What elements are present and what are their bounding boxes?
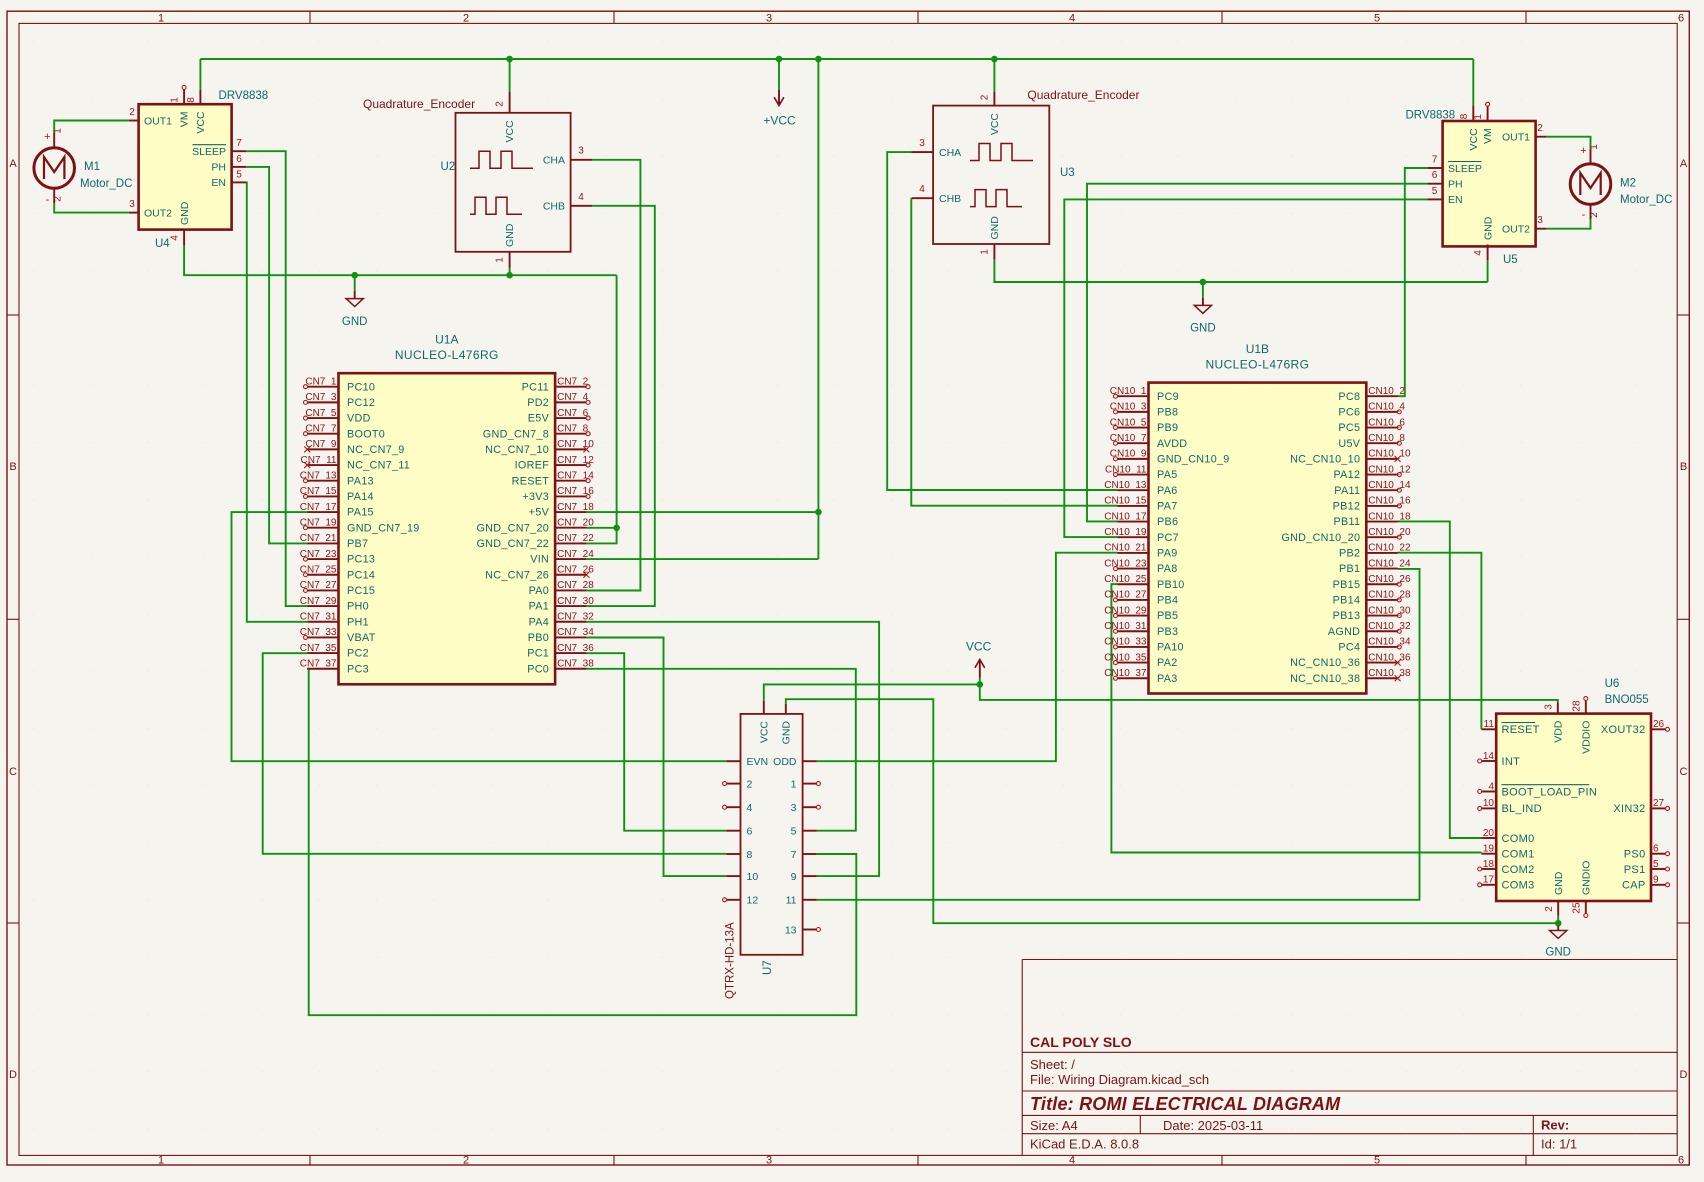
svg-text:CN7_9: CN7_9 <box>305 439 337 450</box>
svg-text:3: 3 <box>129 199 135 210</box>
svg-text:5: 5 <box>791 826 797 838</box>
U1B pin CN10_14 (PA11) <box>1366 489 1397 491</box>
svg-text:Sheet: /: Sheet: / <box>1030 1057 1075 1072</box>
U1B pin CN10_19 (PC7) <box>1117 536 1148 538</box>
svg-text:2: 2 <box>1544 906 1555 912</box>
svg-text:2: 2 <box>980 94 991 100</box>
U1A pin CN7_30 (PA1) <box>555 605 586 607</box>
svg-text:Quadrature_Encoder: Quadrature_Encoder <box>1027 88 1139 102</box>
svg-text:CN10_18: CN10_18 <box>1368 511 1411 522</box>
U1A pin CN7_25 (PC14) <box>307 574 338 576</box>
svg-text:1: 1 <box>158 13 164 25</box>
svg-text:U1A: U1A <box>435 333 458 347</box>
svg-text:CN10_24: CN10_24 <box>1368 558 1411 569</box>
svg-text:19: 19 <box>1483 844 1495 855</box>
U1B pin CN10_12 (PA12) <box>1366 474 1397 476</box>
U1A pin CN7_28 (PA0) <box>555 589 586 591</box>
svg-text:4: 4 <box>1488 781 1494 792</box>
svg-text:PA2: PA2 <box>1157 657 1178 669</box>
svg-text:CN7_6: CN7_6 <box>557 408 589 419</box>
svg-text:OUT2: OUT2 <box>1502 224 1530 236</box>
svg-text:PA0: PA0 <box>529 585 550 597</box>
U1B pin CN10_23 (PA8) <box>1117 568 1148 570</box>
svg-text:CN10_10: CN10_10 <box>1368 449 1411 460</box>
svg-text:CN10_26: CN10_26 <box>1368 574 1411 585</box>
wire: PC3 to QTRX pin7 <box>307 669 856 1015</box>
svg-text:PH1: PH1 <box>347 616 369 628</box>
U1A pin CN7_20 (GND_CN7_20) <box>555 527 586 529</box>
svg-text:Size: A4: Size: A4 <box>1030 1118 1078 1133</box>
svg-text:CN7_19: CN7_19 <box>300 518 337 529</box>
U1B pin CN10_31 (PB3) <box>1117 630 1148 632</box>
U1B pin CN10_33 (PA10) <box>1117 646 1148 648</box>
junction: +5V branch <box>815 509 822 516</box>
U1A pin CN7_23 (PC13) <box>307 558 338 560</box>
svg-text:8: 8 <box>186 97 197 103</box>
svg-text:Title: ROMI ELECTRICAL DIAGRAM: Title: ROMI ELECTRICAL DIAGRAM <box>1030 1094 1341 1114</box>
svg-text:VDD: VDD <box>347 413 371 425</box>
U1A pin CN7_15 (PA14) <box>307 495 338 497</box>
U4 pin 2 OUT1 <box>129 120 139 122</box>
U5 pin 5 EN <box>1427 198 1442 200</box>
svg-text:VM: VM <box>1482 128 1494 144</box>
wire: QTRX pin11 to PB1 <box>817 569 1420 900</box>
U5 pin 8 VCC <box>1472 106 1474 121</box>
svg-text:CN7_35: CN7_35 <box>300 643 337 654</box>
svg-text:PB9: PB9 <box>1157 422 1178 434</box>
U1A pin CN7_10 (NC_CN7_10) <box>555 448 586 450</box>
svg-text:11: 11 <box>786 895 797 907</box>
svg-text:2: 2 <box>129 107 135 118</box>
svg-text:PC2: PC2 <box>347 648 369 660</box>
junction: +VCC tap <box>776 56 783 63</box>
svg-text:CN10_6: CN10_6 <box>1368 417 1405 428</box>
svg-text:PB1: PB1 <box>1339 563 1360 575</box>
U2 pin 1 GND <box>509 252 511 268</box>
U7 pin VCC <box>763 701 765 714</box>
svg-text:CN7_24: CN7_24 <box>557 549 594 560</box>
power symbol GND (left rail) <box>354 275 356 291</box>
wire: +5V branch <box>586 511 818 513</box>
U1A pin CN7_5 (VDD) <box>307 417 338 419</box>
svg-text:6: 6 <box>1678 13 1684 25</box>
U1A pin CN7_3 (PC12) <box>307 401 338 403</box>
svg-text:5: 5 <box>236 170 242 181</box>
U7 pin 4 <box>726 806 740 808</box>
svg-text:PB7: PB7 <box>347 538 368 550</box>
svg-text:CN10_21: CN10_21 <box>1104 543 1147 554</box>
svg-text:U5: U5 <box>1503 254 1518 266</box>
svg-text:GND: GND <box>342 316 368 328</box>
U1A pin CN7_12 (IOREF) <box>555 464 586 466</box>
title block <box>1022 959 1677 961</box>
svg-text:COM1: COM1 <box>1502 849 1535 861</box>
junction: CN7_20 GND <box>613 525 620 532</box>
power symbol GND (right rail) <box>1202 282 1204 298</box>
svg-text:25: 25 <box>1571 902 1582 914</box>
svg-text:PA12: PA12 <box>1333 469 1360 481</box>
wire: U2 VCC riser <box>509 59 511 92</box>
svg-text:CN10_28: CN10_28 <box>1368 590 1411 601</box>
svg-text:GND: GND <box>1190 323 1216 335</box>
U1A pin CN7_32 (PA4) <box>555 621 586 623</box>
svg-text:1: 1 <box>791 778 797 790</box>
svg-text:4: 4 <box>578 192 584 203</box>
U4 pin 3 OUT2 <box>129 212 139 214</box>
wire: U2 CHA to PA0 <box>586 160 640 591</box>
svg-text:PC9: PC9 <box>1157 391 1179 403</box>
U1A pin CN7_18 (+5V) <box>555 511 586 513</box>
svg-text:CN10_37: CN10_37 <box>1104 668 1147 679</box>
svg-text:+5V: +5V <box>529 507 550 519</box>
U1B pin CN10_35 (PA2) <box>1117 662 1148 664</box>
svg-text:CN10_14: CN10_14 <box>1368 480 1411 491</box>
U1A pin CN7_24 (VIN) <box>555 558 586 560</box>
svg-text:GND_CN10_9: GND_CN10_9 <box>1157 453 1230 465</box>
U3 pin 4 CHB <box>912 197 934 199</box>
svg-text:OUT1: OUT1 <box>144 115 172 127</box>
junction: VCC arrow <box>977 681 984 688</box>
svg-text:PA7: PA7 <box>1157 500 1178 512</box>
svg-text:PC10: PC10 <box>347 381 375 393</box>
U6 pin 5 PS1 <box>1651 868 1666 870</box>
wire: U6 GND drop <box>1557 916 1559 924</box>
svg-text:NUCLEO-L476RG: NUCLEO-L476RG <box>1205 358 1309 372</box>
encoder U3 (Quadrature_Encoder) <box>933 106 1049 244</box>
U1A pin CN7_31 (PH1) <box>307 621 338 623</box>
svg-text:NC_CN7_11: NC_CN7_11 <box>347 460 410 472</box>
svg-text:3: 3 <box>766 1155 772 1167</box>
U7 pin 3 <box>803 806 817 808</box>
svg-text:PB2: PB2 <box>1339 548 1360 560</box>
wire: QTRX GND to U6 GND <box>786 699 1558 923</box>
U4 pin 7 SLEEP <box>232 150 247 152</box>
U1B pin CN10_6 (PC5) <box>1366 427 1397 429</box>
svg-text:M1: M1 <box>84 161 100 173</box>
svg-text:CHA: CHA <box>543 155 565 167</box>
svg-text:CN7_11: CN7_11 <box>301 455 337 466</box>
svg-text:INT: INT <box>1502 756 1521 768</box>
U1B pin CN10_22 (PB2) <box>1366 552 1397 554</box>
wire: U4 PH to PB7 <box>246 167 307 544</box>
svg-text:PB15: PB15 <box>1333 579 1361 591</box>
svg-text:1: 1 <box>495 257 506 263</box>
svg-text:CN10_19: CN10_19 <box>1104 527 1147 538</box>
svg-text:CAP: CAP <box>1622 880 1646 892</box>
svg-text:CN7_27: CN7_27 <box>300 580 337 591</box>
U7 pin 6 <box>726 830 740 832</box>
svg-text:2: 2 <box>1589 212 1600 218</box>
svg-text:CN7_20: CN7_20 <box>557 518 594 529</box>
U1A pin CN7_21 (PB7) <box>307 542 338 544</box>
svg-text:PA9: PA9 <box>1157 548 1178 560</box>
svg-text:U1B: U1B <box>1246 342 1269 356</box>
U6 pin 25 GNDIO (unconnected) <box>1585 901 1587 914</box>
svg-text:CN10_13: CN10_13 <box>1104 480 1147 491</box>
U1A pin CN7_22 (GND_CN7_22) <box>555 542 586 544</box>
svg-text:C: C <box>9 766 17 778</box>
svg-text:PC12: PC12 <box>347 397 375 409</box>
svg-text:7: 7 <box>1432 155 1438 166</box>
svg-text:VIN: VIN <box>530 554 549 566</box>
svg-text:PH: PH <box>211 162 226 174</box>
wire: U4 VCC riser <box>199 59 201 90</box>
wire: PC1 to QTRX pin6 <box>586 653 726 831</box>
svg-text:CN7_21: CN7_21 <box>300 533 337 544</box>
svg-text:GND_CN7_22: GND_CN7_22 <box>476 538 549 550</box>
svg-text:CN10_22: CN10_22 <box>1368 543 1411 554</box>
svg-text:PA8: PA8 <box>1157 563 1178 575</box>
MCU board U1B (NUCLEO-L476RG) <box>1149 383 1367 694</box>
svg-text:GND: GND <box>989 216 1001 240</box>
svg-text:CN10_15: CN10_15 <box>1104 496 1147 507</box>
svg-text:GND: GND <box>1545 946 1571 958</box>
svg-text:Quadrature_Encoder: Quadrature_Encoder <box>363 97 475 111</box>
wire: PB10 to U6 COM1 <box>1111 584 1481 852</box>
wire: PA4 to QTRX pin9 <box>586 622 879 876</box>
U1B pin CN10_34 (PC4) <box>1366 646 1397 648</box>
U6 pin 20 COM0 <box>1482 837 1497 839</box>
U6 pin 26 XOUT32 <box>1651 728 1666 730</box>
U1B pin CN10_7 (AVDD) <box>1117 442 1148 444</box>
U1B pin CN10_32 (AGND) <box>1366 630 1397 632</box>
svg-text:4: 4 <box>1069 13 1075 25</box>
svg-text:C: C <box>1680 766 1688 778</box>
U1A pin CN7_14 (RESET) <box>555 480 586 482</box>
svg-text:XOUT32: XOUT32 <box>1601 724 1646 736</box>
junction: U2 VCC tap <box>506 56 513 63</box>
svg-text:CN7_26: CN7_26 <box>557 565 594 576</box>
svg-text:EVN: EVN <box>747 756 769 768</box>
motor driver U4 (DRV8838) <box>139 104 232 229</box>
junction: left GND rail <box>351 272 358 279</box>
wire: PC0 to QTRX pin5 <box>586 669 855 831</box>
svg-text:QTRX-HD-13A: QTRX-HD-13A <box>725 922 737 999</box>
svg-text:4: 4 <box>170 235 181 241</box>
svg-text:CN10_9: CN10_9 <box>1110 449 1147 460</box>
MCU board U1A (NUCLEO-L476RG) <box>339 373 556 684</box>
svg-text:CN10_23: CN10_23 <box>1104 558 1147 569</box>
U7 pin EVN <box>726 760 740 762</box>
svg-text:CN7_36: CN7_36 <box>557 643 594 654</box>
U1A pin CN7_26 (NC_CN7_26) <box>555 574 586 576</box>
svg-text:+: + <box>1580 145 1586 157</box>
svg-text:BNO055: BNO055 <box>1605 694 1649 706</box>
svg-text:U7: U7 <box>762 960 774 975</box>
svg-text:DRV8838: DRV8838 <box>219 90 269 102</box>
svg-text:18: 18 <box>1483 859 1495 870</box>
U1B pin CN10_5 (PB9) <box>1117 427 1148 429</box>
U6 pin 14 INT <box>1482 760 1497 762</box>
svg-text:1: 1 <box>1473 114 1484 120</box>
svg-text:PA5: PA5 <box>1157 469 1178 481</box>
svg-text:IOREF: IOREF <box>515 460 550 472</box>
svg-text:PA4: PA4 <box>529 616 550 628</box>
U6 pin 11 RESET <box>1482 728 1497 730</box>
svg-text:D: D <box>1680 1069 1688 1081</box>
U1B pin CN10_8 (U5V) <box>1366 442 1397 444</box>
svg-text:CN10_1: CN10_1 <box>1110 386 1147 397</box>
junction: right GND rail <box>1200 279 1207 286</box>
svg-text:PA10: PA10 <box>1157 642 1184 654</box>
motor M2 <box>1590 149 1592 164</box>
U3 pin 1 GND <box>993 244 995 260</box>
U6 pin 18 COM2 <box>1482 868 1497 870</box>
U7 pin ODD <box>803 760 817 762</box>
U1A pin CN7_27 (PC15) <box>307 589 338 591</box>
U1A pin CN7_2 (PC11) <box>555 386 586 388</box>
U1B pin CN10_1 (PC9) <box>1117 395 1148 397</box>
svg-text:AVDD: AVDD <box>1157 438 1187 450</box>
svg-text:CHB: CHB <box>939 193 961 205</box>
svg-text:GND: GND <box>179 201 191 225</box>
svg-text:10: 10 <box>747 871 759 883</box>
power symbol +VCC <box>778 59 780 90</box>
U5 pin 3 OUT2 <box>1536 228 1547 230</box>
svg-text:U4: U4 <box>155 238 170 250</box>
svg-text:5: 5 <box>1432 186 1438 197</box>
svg-text:1: 1 <box>1589 144 1600 150</box>
svg-text:GND: GND <box>504 223 516 247</box>
svg-text:Rev:: Rev: <box>1541 1118 1569 1133</box>
svg-text:2: 2 <box>1537 123 1543 134</box>
svg-text:PB14: PB14 <box>1333 595 1361 607</box>
svg-text:PB3: PB3 <box>1157 626 1178 638</box>
U1B pin CN10_28 (PB14) <box>1366 599 1397 601</box>
svg-text:EN: EN <box>1448 194 1463 206</box>
U1B pin CN10_26 (PB15) <box>1366 583 1397 585</box>
wire: U3 GND drop <box>994 260 1487 282</box>
svg-text:CN10_7: CN10_7 <box>1110 433 1147 444</box>
U1A pin CN7_11 (NC_CN7_11) <box>307 464 338 466</box>
svg-text:CN7_34: CN7_34 <box>557 627 594 638</box>
svg-text:2: 2 <box>53 196 64 202</box>
svg-text:1: 1 <box>980 249 991 255</box>
U6 pin 4 BOOT_LOAD_PIN <box>1482 791 1497 793</box>
U1A pin CN7_37 (PC3) <box>307 668 338 670</box>
svg-text:PC8: PC8 <box>1338 391 1360 403</box>
U1B pin CN10_16 (PB12) <box>1366 505 1397 507</box>
svg-text:NC_CN10_38: NC_CN10_38 <box>1290 673 1360 685</box>
power symbol VCC (sensor) <box>979 678 981 685</box>
svg-text:PA11: PA11 <box>1334 485 1360 497</box>
svg-text:CN7_31: CN7_31 <box>300 612 337 623</box>
U4 pin 6 PH <box>232 166 247 168</box>
wire: M2 to OUT1 <box>1546 137 1590 149</box>
U6 pin 10 BL_IND <box>1482 807 1497 809</box>
wire: U5 GND drop <box>1487 260 1489 282</box>
U2 waveform CHA <box>470 151 533 168</box>
svg-text:CN10_31: CN10_31 <box>1104 621 1147 632</box>
U1A pin CN7_34 (PB0) <box>555 636 586 638</box>
svg-text:NC_CN7_9: NC_CN7_9 <box>347 444 405 456</box>
svg-text:CN7_4: CN7_4 <box>557 392 589 403</box>
wire: U3 VCC riser <box>993 59 995 92</box>
svg-text:PA3: PA3 <box>1157 673 1178 685</box>
svg-text:NC_CN7_10: NC_CN7_10 <box>485 444 549 456</box>
svg-text:+3V3: +3V3 <box>522 491 549 503</box>
svg-text:VCC: VCC <box>758 721 770 744</box>
svg-text:VDDIO: VDDIO <box>1580 721 1592 754</box>
svg-text:5: 5 <box>1374 13 1380 25</box>
wire: PA9 to QTRX ODD <box>817 553 1118 762</box>
U1B pin CN10_2 (PC8) <box>1366 395 1397 397</box>
svg-text:GND_CN7_20: GND_CN7_20 <box>476 522 549 534</box>
wire: U4 EN to PH1 <box>246 182 307 621</box>
U7 pin 13 <box>803 929 817 931</box>
svg-text:17: 17 <box>1483 875 1495 886</box>
U5 pin 6 PH <box>1427 183 1442 185</box>
svg-text:CHB: CHB <box>543 201 565 213</box>
U5 pin 2 OUT1 <box>1536 136 1547 138</box>
svg-text:CN7_28: CN7_28 <box>557 580 594 591</box>
svg-text:4: 4 <box>919 184 925 195</box>
svg-text:4: 4 <box>1069 1155 1075 1167</box>
junction: +5V tap <box>815 56 822 63</box>
U7 pin 1 <box>803 783 817 785</box>
svg-text:-: - <box>1582 209 1586 221</box>
U1A pin CN7_35 (PC2) <box>307 652 338 654</box>
svg-text:PC3: PC3 <box>347 663 369 675</box>
U3 waveform CHB <box>970 190 1022 207</box>
svg-text:6: 6 <box>1678 1155 1684 1167</box>
svg-text:PC15: PC15 <box>347 585 375 597</box>
svg-text:CN7_1: CN7_1 <box>305 377 337 388</box>
U1B pin CN10_9 (GND_CN10_9) <box>1117 458 1148 460</box>
svg-text:6: 6 <box>1432 170 1438 181</box>
U6 pin 17 COM3 <box>1482 884 1497 886</box>
svg-text:CN10_29: CN10_29 <box>1104 605 1147 616</box>
svg-text:PC0: PC0 <box>527 663 549 675</box>
U1B pin CN10_29 (PB5) <box>1117 615 1148 617</box>
svg-text:OUT1: OUT1 <box>1502 132 1530 144</box>
svg-text:PC14: PC14 <box>347 569 375 581</box>
svg-text:PA6: PA6 <box>1157 485 1178 497</box>
junction: U6 GND <box>1555 920 1562 927</box>
U1B pin CN10_10 (NC_CN10_10) <box>1366 458 1397 460</box>
svg-text:CN10_25: CN10_25 <box>1104 574 1147 585</box>
U1A pin CN7_1 (PC10) <box>307 386 338 388</box>
svg-text:PB8: PB8 <box>1157 406 1178 418</box>
svg-text:CN10_3: CN10_3 <box>1110 402 1147 413</box>
U5 pin 1 VM (unconnected) <box>1487 106 1489 121</box>
svg-text:EN: EN <box>211 177 226 189</box>
U1B pin CN10_18 (PB11) <box>1366 521 1397 523</box>
U7 pin 2 <box>726 783 740 785</box>
svg-text:PC11: PC11 <box>522 381 549 393</box>
svg-text:GND_CN7_19: GND_CN7_19 <box>347 522 420 534</box>
svg-text:CN7_18: CN7_18 <box>557 502 594 513</box>
svg-text:CN10_17: CN10_17 <box>1104 511 1147 522</box>
wire: U5 VCC riser <box>1472 59 1474 106</box>
svg-text:PS0: PS0 <box>1624 849 1646 861</box>
wire: U3 CHA to PA6 <box>887 152 1117 490</box>
svg-text:PB5: PB5 <box>1157 610 1178 622</box>
U1B pin CN10_27 (PB4) <box>1117 599 1148 601</box>
wire: U3 CHB to PA7 <box>911 198 1117 506</box>
wire: U4 SLEEP to PH0 <box>246 151 307 606</box>
svg-text:CN7_17: CN7_17 <box>300 502 337 513</box>
svg-text:NUCLEO-L476RG: NUCLEO-L476RG <box>395 348 499 362</box>
svg-text:PC1: PC1 <box>527 648 549 660</box>
svg-text:Date: 2025-03-11: Date: 2025-03-11 <box>1163 1118 1263 1133</box>
svg-text:CN10_2: CN10_2 <box>1368 386 1405 397</box>
U1A pin CN7_17 (PA15) <box>307 511 338 513</box>
wire: PB11 to U6 COM0 <box>1398 521 1482 838</box>
U1A pin CN7_13 (PA13) <box>307 480 338 482</box>
junction: U2 GND <box>506 272 513 279</box>
svg-text:5: 5 <box>1374 1155 1380 1167</box>
